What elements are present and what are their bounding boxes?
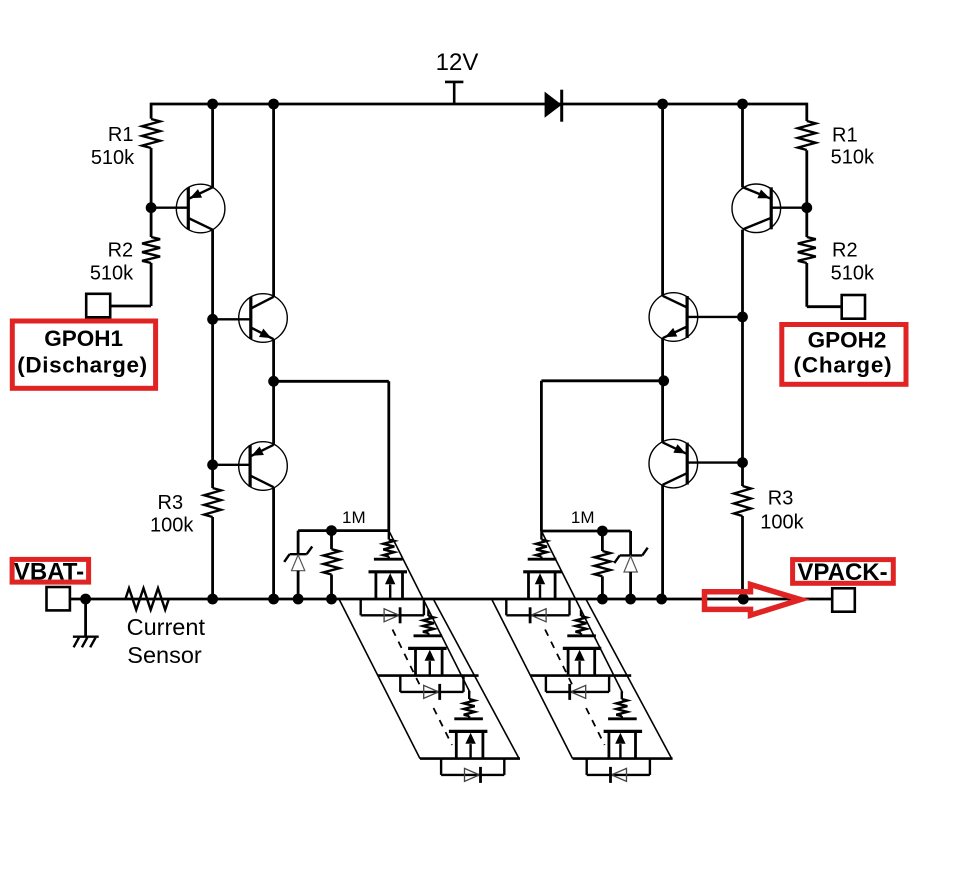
wire cell3 rail M-right-: [573, 757, 673, 760]
mosfet M-right-2 drain lead: [593, 648, 596, 675]
wire Q6 collector to bottom rail: [661, 485, 664, 599]
body diode M-left-1: [384, 609, 399, 622]
node dot Q1 base junction: [146, 202, 157, 213]
svg-text:R1: R1: [108, 124, 134, 146]
node dot Q2 base: [207, 314, 218, 325]
node dot R3 left rail: [207, 594, 218, 605]
mosfet M-left-2 body arrow: [429, 661, 431, 676]
transistor Q4 (right top PNP): [732, 184, 781, 233]
body diode M-left-2 loop: [399, 676, 401, 692]
mosfet M-right-2 body arrow: [578, 661, 580, 676]
wire gate drive node down to Q3: [272, 381, 275, 445]
svg-text:Sensor: Sensor: [127, 642, 202, 668]
label box GPOH1 (Discharge): [12, 321, 155, 388]
wire Q2 base node to Q3 base node: [211, 319, 214, 465]
wire right rail corner to R1: [805, 103, 808, 121]
svg-text:510k: 510k: [831, 262, 875, 284]
mosfet M-right-3 drain lead: [634, 731, 637, 758]
mosfet M-left-3 body arrow: [469, 744, 471, 759]
transistor Q2 (left middle NPN): [239, 294, 288, 343]
body diode M-left-3: [465, 768, 480, 781]
svg-text:510k: 510k: [831, 147, 875, 169]
svg-text:1M: 1M: [342, 508, 366, 527]
terminal pad VBAT-: [47, 587, 70, 610]
zener diode left anode: [297, 571, 300, 599]
mosfet M-left-3 gate bar: [454, 717, 483, 720]
wire Q3 collector to bottom rail: [272, 487, 275, 599]
node dot Q6 base: [737, 457, 748, 468]
svg-text:100k: 100k: [150, 515, 194, 537]
gate resistor M-right-1: [540, 531, 542, 540]
svg-text:R1: R1: [832, 125, 858, 147]
wire Q1 collector down to Q2 base node: [211, 230, 214, 320]
power symbol 12V tap: [445, 81, 463, 84]
wire bank left edge M-left-: [340, 600, 421, 759]
wire R2 right to GPOH2 pad: [805, 263, 808, 307]
wire Q4 base: [771, 206, 807, 208]
resistor current sensor: [125, 588, 168, 610]
node dot R3 right rail: [738, 594, 749, 605]
node dot VPACK junction: [738, 594, 749, 605]
gate resistor M-left-2: [427, 610, 429, 617]
svg-text:Current: Current: [127, 614, 206, 640]
node dot top rail right A: [657, 99, 668, 110]
resistor 1M left: [330, 531, 333, 550]
transistor Q5 (right middle NPN): [649, 293, 698, 342]
wire dashed ellipsis 2 M-right-: [586, 708, 605, 745]
wire R2 to GPOH1 pad: [150, 263, 153, 306]
body diode M-right-2: [571, 685, 586, 698]
mosfet M-left-1 body arrow: [389, 585, 391, 600]
terminal pad GPOH1: [86, 294, 110, 318]
gate resistor M-right-3: [621, 691, 623, 699]
wire top rail to Q1 emitter: [211, 104, 214, 187]
resistor R2 right: [798, 237, 816, 263]
body diode M-left-2: [424, 685, 439, 698]
wire cell2 rail M-left-: [378, 674, 479, 677]
mosfet M-left-3 channel bar: [449, 730, 488, 733]
svg-text:GPOH1: GPOH1: [44, 326, 123, 351]
wire bank left edge M-right-: [492, 600, 572, 759]
body diode M-right-1: [531, 609, 546, 622]
wire junction to R2: [150, 208, 153, 237]
terminal pad VPACK-: [832, 588, 855, 611]
resistor R3 left: [204, 488, 221, 517]
symbol red arrow current direction: [705, 585, 801, 616]
wire Q5 emitter to gate-drive node right: [661, 338, 664, 381]
svg-text:R3: R3: [158, 492, 184, 514]
wire 1M top line left: [298, 529, 389, 532]
body diode M-right-1 loop: [505, 599, 507, 615]
mosfet M-right-3 body arrow: [619, 744, 621, 759]
mosfet M-left-1 channel bar: [369, 570, 408, 573]
svg-text:R2: R2: [108, 240, 134, 262]
svg-text:VBAT-: VBAT-: [14, 559, 84, 586]
wire cell3 rail M-left-: [420, 757, 520, 760]
wire Q4 collector down to Q5 base node: [741, 230, 744, 317]
node dot top rail left A: [207, 99, 218, 110]
mosfet M-right-2 source lead: [567, 648, 570, 675]
wire Q6 base node to R3 right: [741, 463, 744, 486]
body diode M-left-3 loop: [440, 759, 442, 775]
gate resistor M-right-2: [580, 610, 582, 616]
wire Q3 base link: [213, 464, 251, 466]
mosfet M-left-2 source lead: [414, 648, 417, 675]
wire gate drive node down to Q6: [661, 381, 664, 443]
resistor R3 right: [734, 486, 751, 516]
wire dashed ellipsis 1 M-left-: [393, 630, 420, 685]
wire left rail corner to R1: [150, 103, 153, 119]
ground symbol: [84, 599, 87, 637]
node dot gate drive left: [268, 376, 279, 387]
node dot top rail left B: [268, 99, 279, 110]
zener diode left body: [292, 555, 305, 571]
svg-text:(Discharge): (Discharge): [17, 353, 147, 378]
wire dashed ellipsis 1 M-right-: [545, 630, 572, 685]
wire top rail to Q5 collector: [661, 104, 664, 296]
svg-text:1M: 1M: [571, 508, 595, 527]
wire Q2 base link: [213, 318, 251, 320]
wire bottom rail: [70, 598, 832, 601]
node dot zener left rail: [293, 594, 304, 605]
node dot Q3 collector rail: [268, 594, 279, 605]
resistor 1M right: [601, 531, 604, 551]
wire top rail to right Q4 emitter: [741, 104, 744, 187]
wire gate drive horizontal left: [274, 380, 389, 383]
svg-text:R2: R2: [832, 240, 858, 262]
zener diode right anode: [629, 572, 632, 599]
wire top rail to Q2 collector: [272, 104, 275, 297]
mosfet M-right-1 drain lead: [554, 572, 557, 599]
wire top 12V rail: [151, 103, 807, 106]
body diode M-left-1 loop: [360, 599, 362, 615]
label box GPOH2 (Charge): [782, 325, 906, 385]
label box VPACK-: [793, 560, 894, 584]
gate resistor M-left-1: [388, 531, 390, 540]
wire gate slant rail M-left-: [389, 531, 470, 693]
mosfet M-left-3 drain lead: [481, 731, 484, 758]
wire Q1 base: [151, 206, 188, 208]
mosfet M-right-1 body arrow: [539, 585, 541, 600]
transistor Q1 (left top PNP): [176, 184, 225, 233]
diode D1 on 12V rail: [545, 92, 562, 118]
wire R3 right to bottom rail: [741, 516, 744, 599]
wire 1M top line right: [541, 530, 630, 533]
mosfet M-left-2 gate bar: [414, 634, 443, 637]
zener diode right body: [624, 556, 637, 572]
mosfet M-left-2 channel bar: [408, 647, 447, 650]
wire gate slant rail M-right-: [541, 531, 622, 693]
svg-text:VPACK-: VPACK-: [797, 559, 887, 586]
zener diode right cathode: [629, 531, 632, 555]
svg-text:(Charge): (Charge): [794, 352, 893, 377]
node dot 1M top right: [597, 526, 608, 537]
node dot Q4 base junction: [801, 202, 812, 213]
node dot Q3 base: [207, 459, 218, 470]
resistor R2 left: [142, 237, 160, 263]
wire bank inner slant M-left-: [434, 600, 519, 759]
wire gate drive vertical right: [540, 381, 543, 531]
wire junction to R2 right: [805, 208, 808, 237]
mosfet M-left-3 source lead: [455, 731, 458, 758]
node dot 1M bottom right: [597, 594, 608, 605]
wire Q5 base link: [687, 316, 742, 318]
mosfet M-right-2 channel bar: [563, 647, 602, 650]
mosfet M-right-2 gate bar: [567, 634, 596, 637]
resistor R1 left: [142, 119, 160, 148]
svg-text:12V: 12V: [436, 49, 479, 76]
terminal pad GPOH2: [842, 295, 865, 319]
node dot VBAT junction: [80, 594, 91, 605]
node dot top rail right B: [737, 99, 748, 110]
wire Q3 base node to R3: [211, 465, 214, 488]
wire gate drive horizontal right: [541, 379, 663, 382]
node dot Q5 base: [737, 312, 748, 323]
wire R3 to bottom rail: [211, 517, 214, 599]
mosfet M-left-1 gate bar: [374, 558, 403, 561]
wire Q2 emitter to gate-drive node: [272, 339, 275, 381]
svg-text:100k: 100k: [760, 512, 804, 534]
wire R1 to junction: [150, 148, 153, 208]
node dot zener right rail: [625, 594, 636, 605]
body diode M-right-2 loop: [545, 676, 547, 692]
zener diode left cathode: [297, 531, 300, 555]
mosfet M-right-1 gate bar: [528, 558, 557, 561]
wire Q5 base node to Q6 base node: [741, 317, 744, 463]
mosfet M-right-3 channel bar: [604, 730, 643, 733]
mosfet M-right-3 gate bar: [608, 717, 637, 720]
resistor R1 right: [798, 121, 816, 150]
transistor Q6 (right bottom PNP): [649, 439, 698, 488]
mosfet M-right-1 channel bar: [523, 570, 562, 573]
mosfet M-left-1 drain lead: [401, 572, 404, 599]
body diode M-right-3: [612, 768, 627, 781]
wire Q6 base link: [687, 461, 742, 463]
svg-text:510k: 510k: [90, 263, 134, 285]
svg-text:R3: R3: [768, 488, 794, 510]
label box VBAT-: [12, 559, 89, 582]
svg-text:510k: 510k: [91, 147, 135, 169]
node dot Q6 collector rail: [656, 594, 667, 605]
mosfet M-right-1 source lead: [527, 572, 530, 599]
mosfet M-right-3 source lead: [608, 731, 611, 758]
transistor Q3 (left bottom PNP): [239, 442, 288, 491]
wire dashed ellipsis 2 M-left-: [434, 708, 453, 745]
body diode M-right-3 loop: [586, 759, 588, 775]
wire gate drive vertical left: [387, 381, 390, 530]
node dot gate drive right: [658, 375, 669, 386]
node dot 1M bottom left: [326, 594, 337, 605]
wire bank inner slant M-right-: [586, 600, 671, 759]
mosfet M-left-1 source lead: [374, 572, 377, 599]
gate resistor M-left-3: [468, 691, 470, 699]
mosfet M-left-2 drain lead: [441, 648, 444, 675]
node dot 1M top left: [326, 525, 337, 536]
wire R1 right to junction: [805, 150, 808, 207]
svg-text:GPOH2: GPOH2: [808, 328, 887, 353]
wire cell2 rail M-right-: [531, 674, 632, 677]
